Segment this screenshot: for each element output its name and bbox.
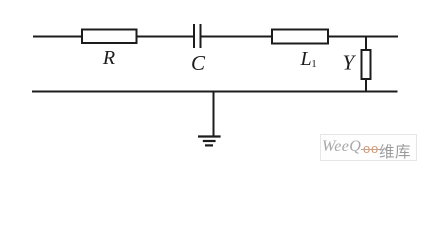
wire inductor-to-right-end (328, 36, 398, 38)
wire bottom bus (32, 91, 398, 93)
watermark strike line (361, 149, 380, 150)
svg-text:Y: Y (342, 50, 356, 74)
svg-text:1: 1 (311, 58, 317, 70)
admittance Y box (362, 50, 371, 79)
wire Y branch bottom (365, 79, 367, 92)
ground (198, 137, 221, 146)
resistor R1 box (82, 30, 137, 44)
wire Y branch top (365, 37, 367, 51)
inductor L1 box (272, 30, 328, 44)
wire resistor-to-capacitor (137, 36, 194, 38)
watermark text oo (363, 141, 379, 156)
wire top-left segment (33, 36, 82, 38)
watermark text weiku (379, 140, 411, 162)
capacitor C left plate (193, 24, 195, 48)
wire ground stem (213, 92, 215, 137)
capacitor C right plate (200, 24, 202, 48)
watermark text WeeQ (322, 138, 361, 156)
wire capacitor-to-inductor (202, 36, 273, 38)
watermark WeeQoo box (320, 134, 417, 161)
svg-text:L: L (299, 48, 311, 70)
svg-text:R: R (102, 47, 115, 69)
svg-text:C: C (191, 51, 206, 75)
